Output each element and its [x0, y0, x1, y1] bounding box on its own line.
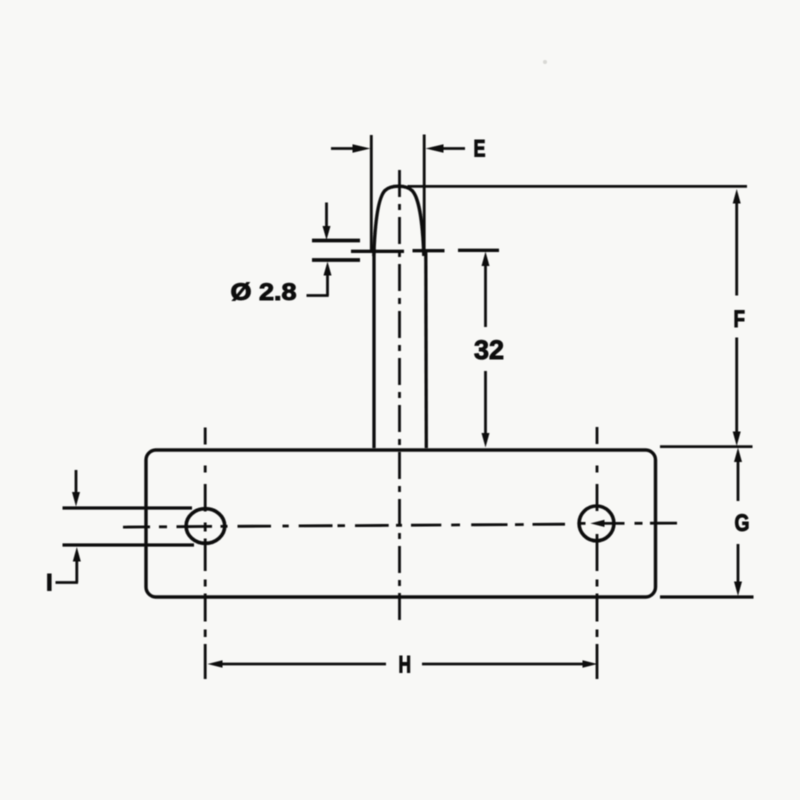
- svg-text:F: F: [734, 306, 746, 333]
- svg-text:E: E: [474, 136, 486, 163]
- svg-text:I: I: [46, 570, 53, 597]
- svg-text:H: H: [399, 652, 412, 679]
- svg-text:G: G: [735, 510, 750, 537]
- svg-text:32: 32: [474, 335, 504, 365]
- svg-text:Ø 2.8: Ø 2.8: [231, 279, 297, 306]
